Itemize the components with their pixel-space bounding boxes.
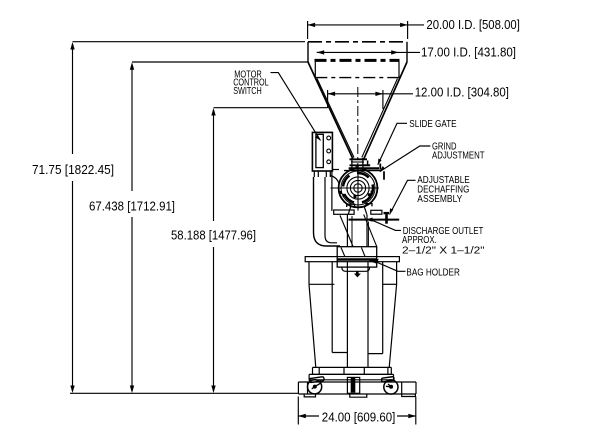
spout wall right (362, 158, 364, 169)
shelf left under grinder (334, 210, 354, 214)
leader discharge outlet (366, 218, 401, 231)
caster bar with outriggers (298, 382, 416, 394)
dimension line 71.75 (70, 42, 74, 393)
pedestal slope right (389, 284, 396, 367)
leader grind adjustment (380, 146, 431, 172)
slide gate handle bar (364, 164, 371, 166)
svg-text:58.188 [1477.96]: 58.188 [1477.96] (171, 229, 256, 243)
extension line top rim (20 in level) (73, 41, 306, 43)
bag bracket rounded (342, 267, 370, 271)
grinder foot tab right (366, 204, 372, 207)
chute spout line right lower (361, 248, 365, 257)
grinder inlet plate (344, 170, 381, 172)
caster wheel right (384, 380, 398, 394)
grinder bolt ring dashed (338, 168, 378, 208)
leader adjustable dechaffing (390, 180, 416, 214)
switch box legs (314, 171, 330, 177)
grinder ring 4 (350, 180, 365, 195)
svg-text:SLIDE GATE: SLIDE GATE (409, 119, 457, 130)
dimension 24.00 (298, 397, 416, 425)
caster swivel plate left (309, 377, 324, 383)
grinder bolt nub 4:00 (371, 191, 374, 194)
spout mid bar (351, 161, 364, 163)
switch box inner window (316, 134, 323, 167)
pedestal shoulder right (383, 283, 397, 285)
svg-text:17.00 I.D. [431.80]: 17.00 I.D. [431.80] (421, 46, 516, 60)
grinder inlet flange heavy (349, 167, 379, 169)
grinder body column inner (325, 177, 337, 243)
extension line 12in level (214, 107, 328, 109)
center foot pad (350, 394, 367, 397)
hopper liner wall right (398, 62, 400, 78)
grinder foot tab left (347, 204, 355, 207)
hopper 17in rim heavy centerline (315, 59, 400, 62)
grind adjustment pin (383, 171, 385, 179)
bracket column to grinder (331, 176, 340, 184)
dimension 12.00 I.D. (328, 90, 413, 109)
slide gate plate (350, 164, 364, 166)
caster swivel plate right (381, 377, 394, 383)
chute wall left inner (351, 216, 353, 246)
dechaffing valve handle (384, 212, 390, 214)
pedestal top plate (305, 257, 399, 262)
hopper cone outer left (308, 62, 353, 159)
dimension 17.00 I.D. (317, 50, 420, 54)
spout top bar (350, 158, 368, 160)
spout wall left (351, 158, 353, 169)
hopper liner bottom centerline (315, 77, 399, 79)
chute diagonal left (340, 215, 353, 246)
leader slide gate (378, 123, 407, 165)
center foot outline (347, 377, 359, 393)
grinder bolt nub 6:00 (354, 195, 357, 198)
slide gate handle cap (367, 161, 369, 166)
leader motor control switch (271, 73, 321, 141)
label ADJUSTABLE DECHAFFING ASSEMBLY (417, 175, 470, 205)
bag bracket bolt head (354, 274, 361, 278)
pedestal shoulder left (309, 283, 334, 285)
label GRIND ADJUSTMENT (432, 142, 485, 162)
floor line (70, 392, 298, 394)
leader bag holder (369, 259, 406, 272)
grinder outlet neck right (364, 207, 367, 215)
svg-text:12.00 I.D. [304.80]: 12.00 I.D. [304.80] (415, 86, 509, 100)
bag holder heavy bar (337, 258, 377, 261)
dimension 20.00 I.D. (308, 21, 424, 39)
grinder ring 3 (347, 177, 369, 199)
chute spout line left lower (341, 248, 345, 257)
grinder outlet neck left (348, 207, 351, 215)
svg-text:20.00 I.D. [508.00]: 20.00 I.D. [508.00] (426, 18, 520, 32)
hopper centerline vertical (357, 87, 359, 172)
base rail (313, 367, 392, 374)
grinder crosshair horizontal (331, 187, 379, 189)
chute wall right (366, 214, 368, 246)
svg-text:67.438 [1712.91]: 67.438 [1712.91] (89, 200, 175, 214)
chute diagonal right (364, 214, 377, 246)
base band (309, 374, 393, 379)
hopper cone inner right (362, 79, 398, 158)
hopper outer wall right (406, 42, 408, 62)
switch button 2 (327, 149, 331, 153)
label MOTOR CONTROL SWITCH (233, 69, 269, 97)
dimension line 67.438 (130, 62, 134, 393)
hopper top rim centerline (308, 41, 407, 43)
bracket switch to grinder (332, 169, 339, 171)
hopper outer wall left (307, 42, 309, 62)
hopper cone inner left (317, 79, 354, 158)
label DISCHARGE OUTLET APPROX (402, 226, 485, 257)
svg-text:2–1/2" X 1–1/2": 2–1/2" X 1–1/2" (402, 246, 485, 257)
pedestal side right (396, 262, 398, 284)
grinder body column outer (314, 177, 341, 246)
grinder outer inner ring (341, 171, 375, 205)
svg-text:ASSEMBLY: ASSEMBLY (417, 194, 462, 205)
switch button 3 (327, 160, 331, 164)
pedestal inner column left (332, 262, 347, 367)
grinder bolt nub 4:30 (368, 193, 371, 196)
switch button 1 (327, 136, 331, 140)
bag bracket bolt stem (356, 271, 359, 273)
grinder housing right edge (331, 171, 333, 211)
svg-text:BAG HOLDER: BAG HOLDER (406, 268, 460, 279)
extension line 17in level (132, 61, 308, 63)
pedestal side left (308, 262, 310, 284)
grinder bolt nub top (356, 166, 359, 169)
slide gate handle pin (379, 164, 381, 170)
pedestal inner column right (368, 262, 383, 367)
chute wall left (346, 214, 348, 246)
grinder bolt nub 7:30 (339, 191, 342, 194)
caster wheel left (308, 380, 322, 394)
dimension line 58.188 (211, 108, 215, 393)
grinder hub circle (354, 184, 362, 192)
svg-text:ADJUSTMENT: ADJUSTMENT (432, 150, 485, 161)
chute wall right inner (367, 222, 369, 247)
svg-text:SWITCH: SWITCH (233, 86, 262, 97)
bag housing box (337, 247, 377, 267)
hopper liner wall left (314, 62, 316, 78)
grinder bolt nub 6:30 (343, 194, 346, 197)
grinder outer circle (339, 169, 378, 208)
shelf right under grinder (371, 210, 382, 214)
svg-text:71.75 [1822.45]: 71.75 [1822.45] (32, 163, 114, 177)
svg-text:24.00 [609.60]: 24.00 [609.60] (322, 410, 396, 424)
grinder crosshair vertical (357, 168, 359, 211)
pedestal slope left (309, 284, 316, 367)
switch box outer (312, 132, 332, 171)
caster pad left (304, 394, 315, 397)
dechaffing valve stem (385, 214, 388, 224)
hopper cone outer right (364, 62, 407, 159)
dechaffing pipe (349, 219, 400, 221)
pad right (402, 394, 416, 396)
center foot bolt (351, 378, 356, 393)
